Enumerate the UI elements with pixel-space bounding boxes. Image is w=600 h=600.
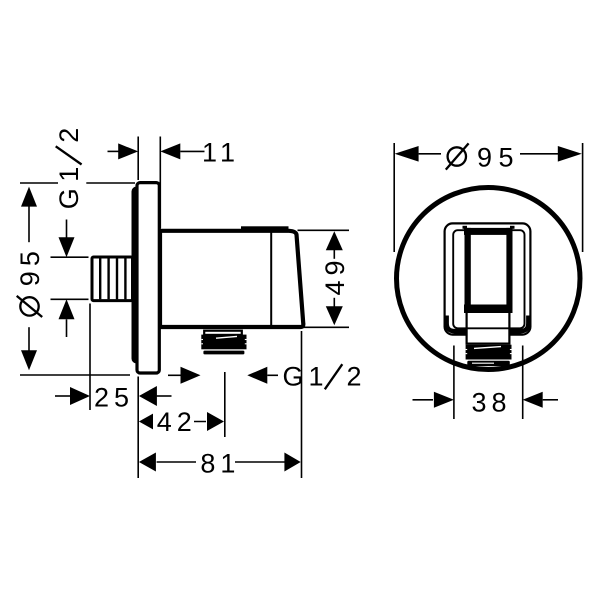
svg-text:25: 25 [94,383,134,413]
holder bracket left bar [465,228,471,313]
dimension 42: line and arrows [139,412,224,431]
wall plate (side view) [137,183,159,373]
svg-text:42: 42 [157,407,197,437]
dimension 81: text [196,449,240,479]
dimension 38: extension lines [454,346,523,420]
dimension G1/2 inlet: lower arrow [51,299,89,337]
outlet thread black (side view) [201,335,246,355]
dimension G1/2 inlet: upper arrow [51,220,89,258]
dimension 11: text [202,138,240,168]
outlet thread black (front view) [466,345,512,366]
dimension 49: dimension line with arrows [326,231,343,325]
wall plate circle (front view) [397,188,581,370]
svg-text:81: 81 [200,449,240,479]
dimension 25: text [94,383,134,413]
svg-text:G1: G1 [283,361,329,391]
dimension 42: text [153,407,197,437]
dimension 49: extension lines [295,230,349,327]
dimension G1/2 outlet: text [283,361,367,391]
body/nose joint line [270,233,272,326]
dimension 11: extension lines [138,137,160,229]
holder bracket right bar [506,228,512,313]
dimension Ø95 left: dimension line with arrows [21,187,37,371]
svg-text:95: 95 [477,142,520,172]
svg-text:2: 2 [54,123,84,143]
outlet centerline extension [224,372,226,437]
svg-text:G1: G1 [54,160,84,209]
dimension Ø95 left: rotated text [15,242,45,327]
dimension 11: arrows and line [108,143,205,159]
dimension 81: line and arrows [139,453,301,472]
dimension Ø95 left: extension lines [20,183,135,375]
svg-text:95: 95 [15,246,45,286]
dimension Ø95 right: arrows and line [395,146,582,162]
square escutcheon thick bottom rim [447,316,529,332]
svg-text:11: 11 [202,138,240,168]
dimension Ø95 right: text [446,142,520,172]
svg-text:49: 49 [320,255,350,295]
extension line from nose tip [301,331,303,478]
dimension 25: line and arrows [55,304,172,411]
top lip on body [241,226,289,231]
threaded inlet G1/2 (side view) [92,257,133,301]
body of elbow (side view) [160,231,303,327]
dimension 38: arrows and line [413,392,559,408]
square escutcheon outer (front view) [445,223,531,334]
square escutcheon inner chamfer line [453,230,524,328]
svg-text:38: 38 [472,388,512,418]
dimension G1/2 outlet: arrows [168,367,278,384]
dimension 49: rotated text [320,255,350,297]
dimension G1/2 inlet: rotated text [54,123,87,213]
holder cradle bar [464,305,513,314]
cone cup below holder [467,312,510,344]
dimension 38: text [472,388,512,418]
dimension Ø95 right: extension lines [394,143,582,252]
svg-text:2: 2 [347,361,367,391]
wall flange disc edge (black slab behind plate) [132,187,147,364]
holder bracket top bar [463,226,515,235]
common extension line from wall plate face [137,377,139,479]
outlet neck (side view) [204,331,242,335]
